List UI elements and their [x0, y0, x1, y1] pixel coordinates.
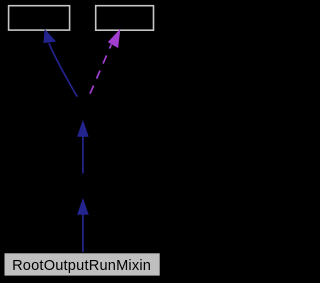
edge template relation arrow to top-right box (dashed darkorchid)	[89, 30, 120, 97]
svg-text:RootOutputRunMixin: RootOutputRunMixin	[12, 258, 151, 274]
edge inheritance arrow (lower middle vertical)	[78, 199, 88, 252]
node RootOutputRunMixin (current class, silver)	[5, 253, 160, 275]
node template-class box (top-right)	[96, 6, 154, 31]
edge inheritance arrow (upper middle vertical)	[78, 121, 88, 173]
node base-class box (top-left)	[9, 6, 70, 30]
edge inheritance arrow to top-left box (solid midnightblue)	[44, 30, 77, 97]
